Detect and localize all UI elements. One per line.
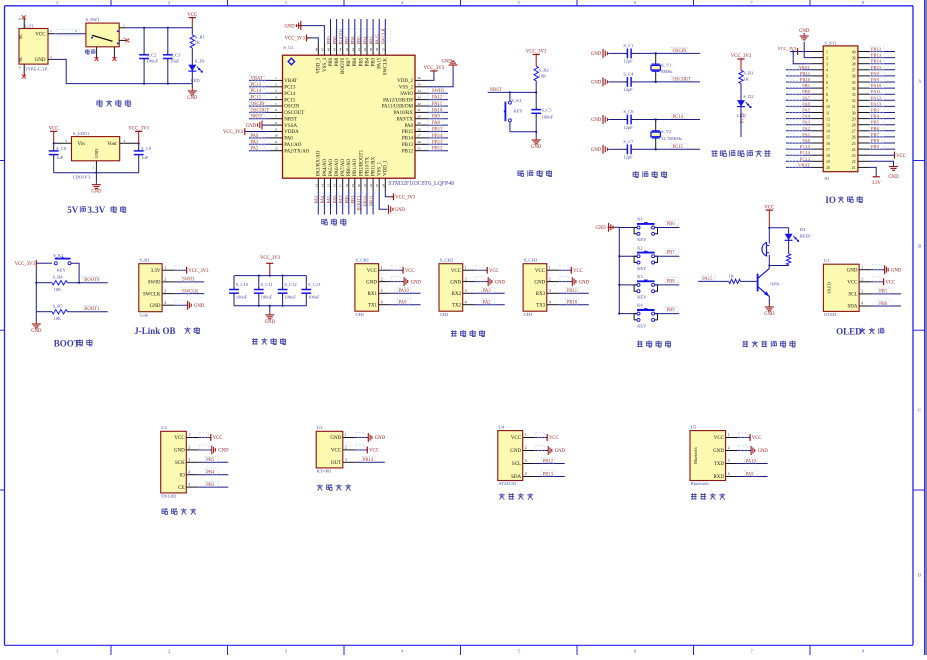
svg-text:U4: U4 <box>498 425 504 430</box>
microcontroller S_U1 STM32F103C8T6_LQFP48 <box>283 45 455 187</box>
net label OSCIN <box>249 105 271 107</box>
svg-text:1: 1 <box>861 265 863 269</box>
net label PC15 <box>650 148 700 150</box>
wire VSS_1 to GND port bottom <box>379 191 387 210</box>
svg-text:B: B <box>918 244 921 249</box>
net label PB8 top <box>336 19 338 43</box>
pin 3 of S_LDO1 <box>54 142 72 144</box>
svg-text:PB6: PB6 <box>871 126 880 131</box>
svg-text:1uF: 1uF <box>141 155 149 160</box>
svg-text:1: 1 <box>50 29 52 33</box>
svg-text:29: 29 <box>852 117 856 121</box>
svg-text:PB1/AO: PB1/AO <box>353 158 358 176</box>
net label PA5 bottom <box>330 191 332 215</box>
svg-text:VSS_1: VSS_1 <box>378 161 383 176</box>
pin 0 of S_T1 with no-ERC cross <box>19 64 26 78</box>
svg-text:1: 1 <box>549 266 551 270</box>
connector U5 <box>690 425 726 487</box>
pin 11 of S_ST1 <box>812 112 823 114</box>
pin 2 of S_LDO1 <box>120 142 139 144</box>
svg-text:10K: 10K <box>54 287 63 292</box>
svg-text:GND: GND <box>411 280 422 285</box>
svg-text:5: 5 <box>826 75 828 79</box>
svg-text:3: 3 <box>164 289 166 293</box>
svg-text:8: 8 <box>862 649 864 654</box>
svg-text:TX2: TX2 <box>452 303 462 308</box>
svg-text:2: 2 <box>50 55 52 59</box>
svg-text:PA10: PA10 <box>432 108 443 113</box>
svg-text:100uF: 100uF <box>147 59 159 64</box>
net label PB12 <box>427 150 448 152</box>
svg-text:11: 11 <box>826 111 830 115</box>
wire LED to bottom rail <box>191 71 193 84</box>
svg-text:PB15: PB15 <box>402 130 414 135</box>
svg-text:PA7/AO: PA7/AO <box>341 159 346 176</box>
pin 34 of S_ST1 <box>858 87 869 89</box>
net label BOOT0 top <box>342 19 344 43</box>
svg-text:PB11/RX: PB11/RX <box>372 156 377 176</box>
pin of S_SW1 bottom left with no-ERC cross <box>96 47 98 59</box>
svg-text:17: 17 <box>339 183 343 187</box>
svg-text:6: 6 <box>826 81 828 85</box>
pin 19 of S_U1 (PB1/AO) <box>354 178 356 190</box>
svg-text:PB9: PB9 <box>667 308 676 313</box>
svg-text:12pF: 12pF <box>623 87 633 92</box>
svg-text:2: 2 <box>188 446 190 450</box>
net label PC13 <box>249 86 271 88</box>
net label PA10 <box>427 111 448 113</box>
ground GND on pin 2 of U2 <box>198 449 212 451</box>
pin 1 of S_T1 <box>48 33 54 35</box>
pin 41 of S_U1 (PB5) <box>360 43 362 55</box>
svg-text:RX2: RX2 <box>452 292 462 297</box>
svg-text:VCC_3V3: VCC_3V3 <box>128 127 149 132</box>
pin 14 of S_U1 (PA4/AO) <box>323 178 325 190</box>
wire VDD_3 to VCC_3V3 port top <box>310 38 318 43</box>
net label PA7 bottom <box>342 191 344 215</box>
svg-text:VCC_3V3: VCC_3V3 <box>285 37 306 42</box>
net label PA0 on pin 16 <box>786 142 812 144</box>
svg-text:10K: 10K <box>539 74 548 79</box>
svg-text:PC13: PC13 <box>741 112 746 123</box>
pin 16 of S_ST1 <box>812 142 823 144</box>
svg-text:GND: GND <box>579 280 590 285</box>
svg-text:2: 2 <box>465 277 467 281</box>
net label PB7 top <box>348 19 350 43</box>
svg-text:PB7: PB7 <box>667 251 676 256</box>
svg-text:S_C13: S_C13 <box>308 282 321 287</box>
svg-text:12pF: 12pF <box>623 125 633 130</box>
ground GND reset <box>535 132 537 138</box>
LED D3 BEEP branch <box>785 227 811 241</box>
svg-text:18: 18 <box>826 154 830 158</box>
pin 8 of S_ST1 <box>812 93 823 95</box>
pin 31 of S_U1 (PA10/RX) <box>415 111 427 113</box>
svg-text:S_CH3: S_CH3 <box>524 258 538 263</box>
svg-text:KEY: KEY <box>57 267 67 272</box>
svg-text:SCK: SCK <box>175 461 185 466</box>
ground GND on pin 2 of S_CH2 <box>475 281 489 283</box>
svg-text:PC15: PC15 <box>251 96 262 101</box>
connector S_CH2 <box>439 258 463 317</box>
svg-text:1: 1 <box>56 649 58 654</box>
svg-text:2: 2 <box>381 277 383 281</box>
svg-text:VCC_3V3: VCC_3V3 <box>188 269 209 274</box>
power port VCC on pin 1 of U4 <box>535 437 548 439</box>
svg-text:13: 13 <box>826 124 830 128</box>
svg-text:GND: GND <box>187 96 198 101</box>
svg-text:IO: IO <box>824 176 830 181</box>
net label PB6 on K1 <box>655 227 680 229</box>
svg-text:1K: 1K <box>728 274 734 279</box>
net label PC14 on pin 18 <box>786 154 812 156</box>
ground GND at S_C6 <box>591 115 607 124</box>
wire VDD_1 to VCC_3V3 port bottom <box>385 191 390 197</box>
svg-text:5: 5 <box>518 649 520 654</box>
net label PA2 on pin 4 of S_CH2 <box>475 304 505 306</box>
svg-text:GND: GND <box>591 118 602 123</box>
svg-text:GND: GND <box>94 149 99 158</box>
resistor R2 1K base <box>729 279 741 283</box>
svg-text:2: 2 <box>525 446 527 450</box>
svg-text:VCC: VCC <box>896 154 906 159</box>
net label PB1 on pin 3 of U1 <box>871 293 901 295</box>
svg-text:Link: Link <box>139 312 148 317</box>
svg-text:VSSA: VSSA <box>284 124 297 129</box>
LED S_D2 <box>740 84 742 101</box>
svg-text:38: 38 <box>852 63 856 67</box>
svg-text:CH3: CH3 <box>524 312 533 317</box>
svg-text:VCC: VCC <box>187 13 197 18</box>
pin 23 of S_ST1 <box>858 154 869 156</box>
svg-text:39: 39 <box>369 48 373 52</box>
power port VCC on pin 1 of U2 <box>198 437 211 439</box>
svg-text:20: 20 <box>357 184 361 188</box>
svg-text:PC15: PC15 <box>284 98 296 103</box>
svg-text:100nF: 100nF <box>542 114 554 119</box>
power port VCC_3V3 boot <box>15 260 52 267</box>
transistor Q1 NPN <box>758 266 780 297</box>
pin 45 of S_U1 (PB8) <box>336 43 338 55</box>
svg-text:22: 22 <box>369 184 373 188</box>
svg-text:PA0: PA0 <box>284 137 293 142</box>
svg-text:GND: GND <box>441 60 452 65</box>
pin 37 of S_U1 (SWCLK) <box>384 43 386 55</box>
svg-text:3: 3 <box>285 649 287 654</box>
pin 1 of S_ST1 <box>812 51 823 53</box>
svg-text:PB13: PB13 <box>543 472 554 477</box>
net label PA13 on pin 31 <box>869 105 895 107</box>
svg-text:18: 18 <box>345 183 349 187</box>
power port VCC_3V3 pin 1 of S_ST1 <box>778 46 812 55</box>
pin 44 of S_U1 (BOOT0) <box>342 43 344 55</box>
svg-text:2: 2 <box>164 278 166 282</box>
pin 1 of U3 (GND) <box>343 437 355 439</box>
svg-text:GND: GND <box>534 280 545 285</box>
power port VCC_3V3 output <box>138 131 140 143</box>
net label PA4 bottom <box>323 191 325 215</box>
svg-text:SWIO: SWIO <box>400 92 413 97</box>
svg-text:PB1: PB1 <box>802 83 811 88</box>
pin 19 of S_ST1 <box>812 160 823 162</box>
svg-text:PA11: PA11 <box>871 89 882 94</box>
svg-text:3: 3 <box>285 0 287 5</box>
pin 29 of S_U1 (PA8) <box>415 124 427 126</box>
svg-text:31: 31 <box>852 105 856 109</box>
svg-text:K4: K4 <box>637 303 643 308</box>
svg-text:PA6: PA6 <box>802 101 810 106</box>
power port VCC alarm <box>768 210 770 226</box>
svg-text:37: 37 <box>852 69 856 73</box>
svg-text:22: 22 <box>852 160 856 164</box>
svg-text:PA7: PA7 <box>802 95 810 100</box>
svg-text:3: 3 <box>465 289 467 293</box>
svg-text:45: 45 <box>333 47 337 51</box>
pin 26 of S_U1 (PB13) <box>415 143 427 145</box>
svg-text:GND: GND <box>591 52 602 57</box>
svg-text:VBAT: VBAT <box>798 162 810 167</box>
svg-text:S_R2: S_R2 <box>539 68 549 73</box>
svg-text:1: 1 <box>123 36 125 40</box>
svg-text:PB4: PB4 <box>365 57 370 66</box>
pin 1 of S_CH3 (VCC) <box>547 269 559 271</box>
svg-text:S_H1: S_H1 <box>139 258 150 263</box>
svg-text:5: 5 <box>518 0 520 5</box>
svg-text:PB14: PB14 <box>432 134 443 139</box>
pin 4 of U1 (SDA) <box>859 305 871 307</box>
resistor S_R5 10K <box>36 311 52 313</box>
svg-text:100uF: 100uF <box>308 295 320 300</box>
pin 12 of S_ST1 <box>812 118 823 120</box>
svg-text:1: 1 <box>465 266 467 270</box>
svg-text:PA6/AO: PA6/AO <box>335 159 340 176</box>
wire T1 VCC to SW1 <box>54 33 86 35</box>
pin 6 of S_T1 with no-ERC cross <box>19 15 26 28</box>
net label PB4 top <box>366 19 368 43</box>
net label PB0 on pin 8 <box>786 93 812 95</box>
power port VCC <box>191 18 193 28</box>
net label PA8 on pin 36 <box>869 75 895 77</box>
net label SWIO on pin 2 of S_H1 <box>174 281 204 283</box>
svg-text:PA1: PA1 <box>802 132 810 137</box>
svg-text:S_CH1: S_CH1 <box>356 258 370 263</box>
pin 3 of S_ST1 <box>812 63 823 65</box>
net label PB4 on pin 29 <box>869 118 895 120</box>
svg-text:PA8: PA8 <box>405 124 414 129</box>
svg-text:12pF: 12pF <box>623 59 633 64</box>
svg-text:OUT: OUT <box>331 461 341 466</box>
svg-text:4: 4 <box>381 300 383 304</box>
svg-text:12: 12 <box>274 147 278 151</box>
svg-text:PA9: PA9 <box>432 115 441 120</box>
title 滤波电路 <box>252 338 258 344</box>
svg-text:Vout: Vout <box>107 142 117 147</box>
svg-text:S_K1: S_K1 <box>511 98 521 103</box>
svg-text:U1: U1 <box>824 258 830 263</box>
svg-text:SWCLK: SWCLK <box>143 292 161 297</box>
ground GND boot <box>35 312 37 322</box>
net label PB15 <box>427 131 448 133</box>
pin header S_ST1 IO expansion <box>823 40 858 181</box>
svg-text:VCC: VCC <box>213 436 223 441</box>
svg-text:S_D2: S_D2 <box>743 94 753 99</box>
svg-text:VCC_3V3: VCC_3V3 <box>395 196 416 201</box>
net label PB0 on pin 4 of U1 <box>871 305 901 307</box>
svg-text:29: 29 <box>417 121 421 125</box>
net label PB9 top <box>330 19 332 43</box>
svg-text:STM32F103C8T6_LQFP48: STM32F103C8T6_LQFP48 <box>388 181 454 187</box>
svg-text:Vin: Vin <box>78 142 86 147</box>
svg-text:PA2: PA2 <box>251 147 260 152</box>
wire filter bottom rail <box>234 305 306 307</box>
pin 29 of S_ST1 <box>858 118 869 120</box>
connector S_T1 TYPE-C-2P <box>18 23 48 71</box>
pin 32 of S_ST1 <box>858 99 869 101</box>
net label PB10 bottom <box>366 191 368 215</box>
svg-text:40: 40 <box>363 48 367 52</box>
svg-text:6: 6 <box>634 0 636 5</box>
svg-text:VCC: VCC <box>367 269 378 274</box>
svg-text:8MHz: 8MHz <box>661 69 673 74</box>
pin 7 of S_U1 (NRST) <box>271 118 283 120</box>
pin 4 of S_CH2 (TX2) <box>463 304 475 306</box>
regulator S_LDO1 <box>72 131 120 179</box>
pin 4 of S_ST1 <box>812 69 823 71</box>
power port VCC pin 23 of S_ST1 <box>869 152 906 159</box>
svg-text:8: 8 <box>826 93 828 97</box>
svg-text:VCC: VCC <box>847 281 858 286</box>
pin 20 of S_U1 (PB2/BOOT1) <box>360 178 362 190</box>
svg-text:PC14: PC14 <box>673 115 684 120</box>
svg-text:GND: GND <box>265 320 276 325</box>
svg-text:PB8: PB8 <box>335 57 340 66</box>
pin 2 of S_CH3 (GND) <box>547 281 559 283</box>
pin 38 of S_ST1 <box>858 63 869 65</box>
svg-text:43: 43 <box>345 47 349 51</box>
svg-text:23: 23 <box>852 154 856 158</box>
svg-text:VDDA: VDDA <box>284 130 299 135</box>
pin 46 of S_U1 (PB9) <box>330 43 332 55</box>
svg-text:16: 16 <box>826 142 830 146</box>
net label PA10 on pin 3 of S_CH1 <box>391 292 421 294</box>
svg-text:PA10: PA10 <box>399 289 410 294</box>
net label PB0 bottom <box>348 191 350 215</box>
svg-text:14: 14 <box>320 183 324 187</box>
svg-text:PC14: PC14 <box>251 89 262 94</box>
pin 24 of S_U1 (VDD_1) <box>384 178 386 190</box>
pin 22 of S_U1 (PB11/RX) <box>372 178 374 190</box>
svg-text:5V: 5V <box>67 205 79 215</box>
title 蓝牙模块 <box>691 493 697 499</box>
pin 25 of S_ST1 <box>858 142 869 144</box>
svg-text:PA8: PA8 <box>432 121 441 126</box>
svg-text:GND: GND <box>218 449 229 454</box>
svg-text:VCC: VCC <box>752 436 762 441</box>
pin 25 of S_U1 (PB12) <box>415 150 427 152</box>
svg-text:PB11: PB11 <box>567 289 578 294</box>
net label PB10 on pin 4 of S_CH3 <box>559 304 589 306</box>
svg-text:VCC: VCC <box>489 269 499 274</box>
svg-text:1: 1 <box>525 433 527 437</box>
pin 40 of S_U1 (PB4) <box>366 43 368 55</box>
pin 1 of S_CH2 (VCC) <box>463 269 475 271</box>
ground GND on pin 4 of S_H1 <box>174 304 188 306</box>
svg-text:1: 1 <box>93 166 95 170</box>
power port VCC on pin 1 of S_CH3 <box>559 269 572 271</box>
pin 31 of S_ST1 <box>858 105 869 107</box>
svg-text:46: 46 <box>326 47 330 51</box>
wire VDD_2 to VCC_3V3 port <box>427 71 434 81</box>
net label PB3 on pin 30 <box>869 112 895 114</box>
svg-text:GND: GND <box>450 280 461 285</box>
pin 21 of S_ST1 <box>858 166 869 168</box>
svg-text:PA10/RX: PA10/RX <box>394 111 414 116</box>
net label PA11 <box>427 105 448 107</box>
svg-text:PB3: PB3 <box>206 483 215 488</box>
title 霍尔模块 <box>317 484 323 490</box>
svg-text:PB14: PB14 <box>402 137 414 142</box>
net label PA1 on pin 15 <box>786 136 812 138</box>
svg-text:S_V1: S_V1 <box>661 63 671 68</box>
wire key bus vertical <box>618 228 620 314</box>
svg-text:4: 4 <box>861 302 863 306</box>
svg-text:7: 7 <box>751 0 753 5</box>
pin 5 of S_U1 (OSCIN) <box>271 105 283 107</box>
svg-text:GND: GND <box>174 449 185 454</box>
ground GND on pin 2 of S_CH1 <box>391 281 405 283</box>
pin 2 of S_H1 (SWIO) <box>162 281 174 283</box>
title 串口电路 <box>451 330 457 336</box>
net label PB6 on pin 27 <box>869 130 895 132</box>
svg-text:24: 24 <box>852 148 856 152</box>
svg-text:GND: GND <box>591 148 602 153</box>
svg-text:5: 5 <box>188 483 190 487</box>
title 程序运行指示灯 <box>712 150 718 157</box>
power port 3.3V pin 21 of S_ST1 <box>869 167 881 185</box>
svg-text:PA4/AO: PA4/AO <box>323 159 328 176</box>
svg-text:47: 47 <box>320 47 324 51</box>
wire buzzer to collector node <box>768 255 770 266</box>
svg-text:2: 2 <box>345 446 347 450</box>
svg-text:35: 35 <box>852 81 856 85</box>
pin 20 of S_ST1 <box>812 166 823 168</box>
net label PA2 on pin 14 <box>786 130 812 132</box>
pin 3 of S_CH3 (RX3) <box>547 292 559 294</box>
svg-text:4: 4 <box>728 472 730 476</box>
pin 28 of S_ST1 <box>858 124 869 126</box>
svg-text:VCC_3V3: VCC_3V3 <box>260 256 281 261</box>
power port VCC on pin 2 of U1 <box>871 281 884 283</box>
net label PC14 <box>249 92 271 94</box>
svg-text:37: 37 <box>381 47 385 51</box>
net label PA8 <box>427 124 448 126</box>
svg-text:8: 8 <box>862 0 864 5</box>
title 晶振电路 <box>633 171 639 178</box>
svg-text:GND: GND <box>595 226 606 231</box>
svg-text:PA1/AO: PA1/AO <box>284 143 301 148</box>
wire key and cap to ground <box>510 131 536 133</box>
ground GND on pin 2 of S_CH3 <box>559 281 573 283</box>
svg-text:2: 2 <box>826 56 828 60</box>
svg-text:S_C9: S_C9 <box>141 146 152 151</box>
ground GND right of chip <box>441 60 457 68</box>
svg-text:6: 6 <box>634 649 636 654</box>
svg-text:VCC_3V3: VCC_3V3 <box>526 50 547 55</box>
svg-text:17: 17 <box>826 148 830 152</box>
svg-text:RX1: RX1 <box>368 292 378 297</box>
svg-text:PB12: PB12 <box>402 149 414 154</box>
svg-text:GND: GND <box>591 81 602 86</box>
